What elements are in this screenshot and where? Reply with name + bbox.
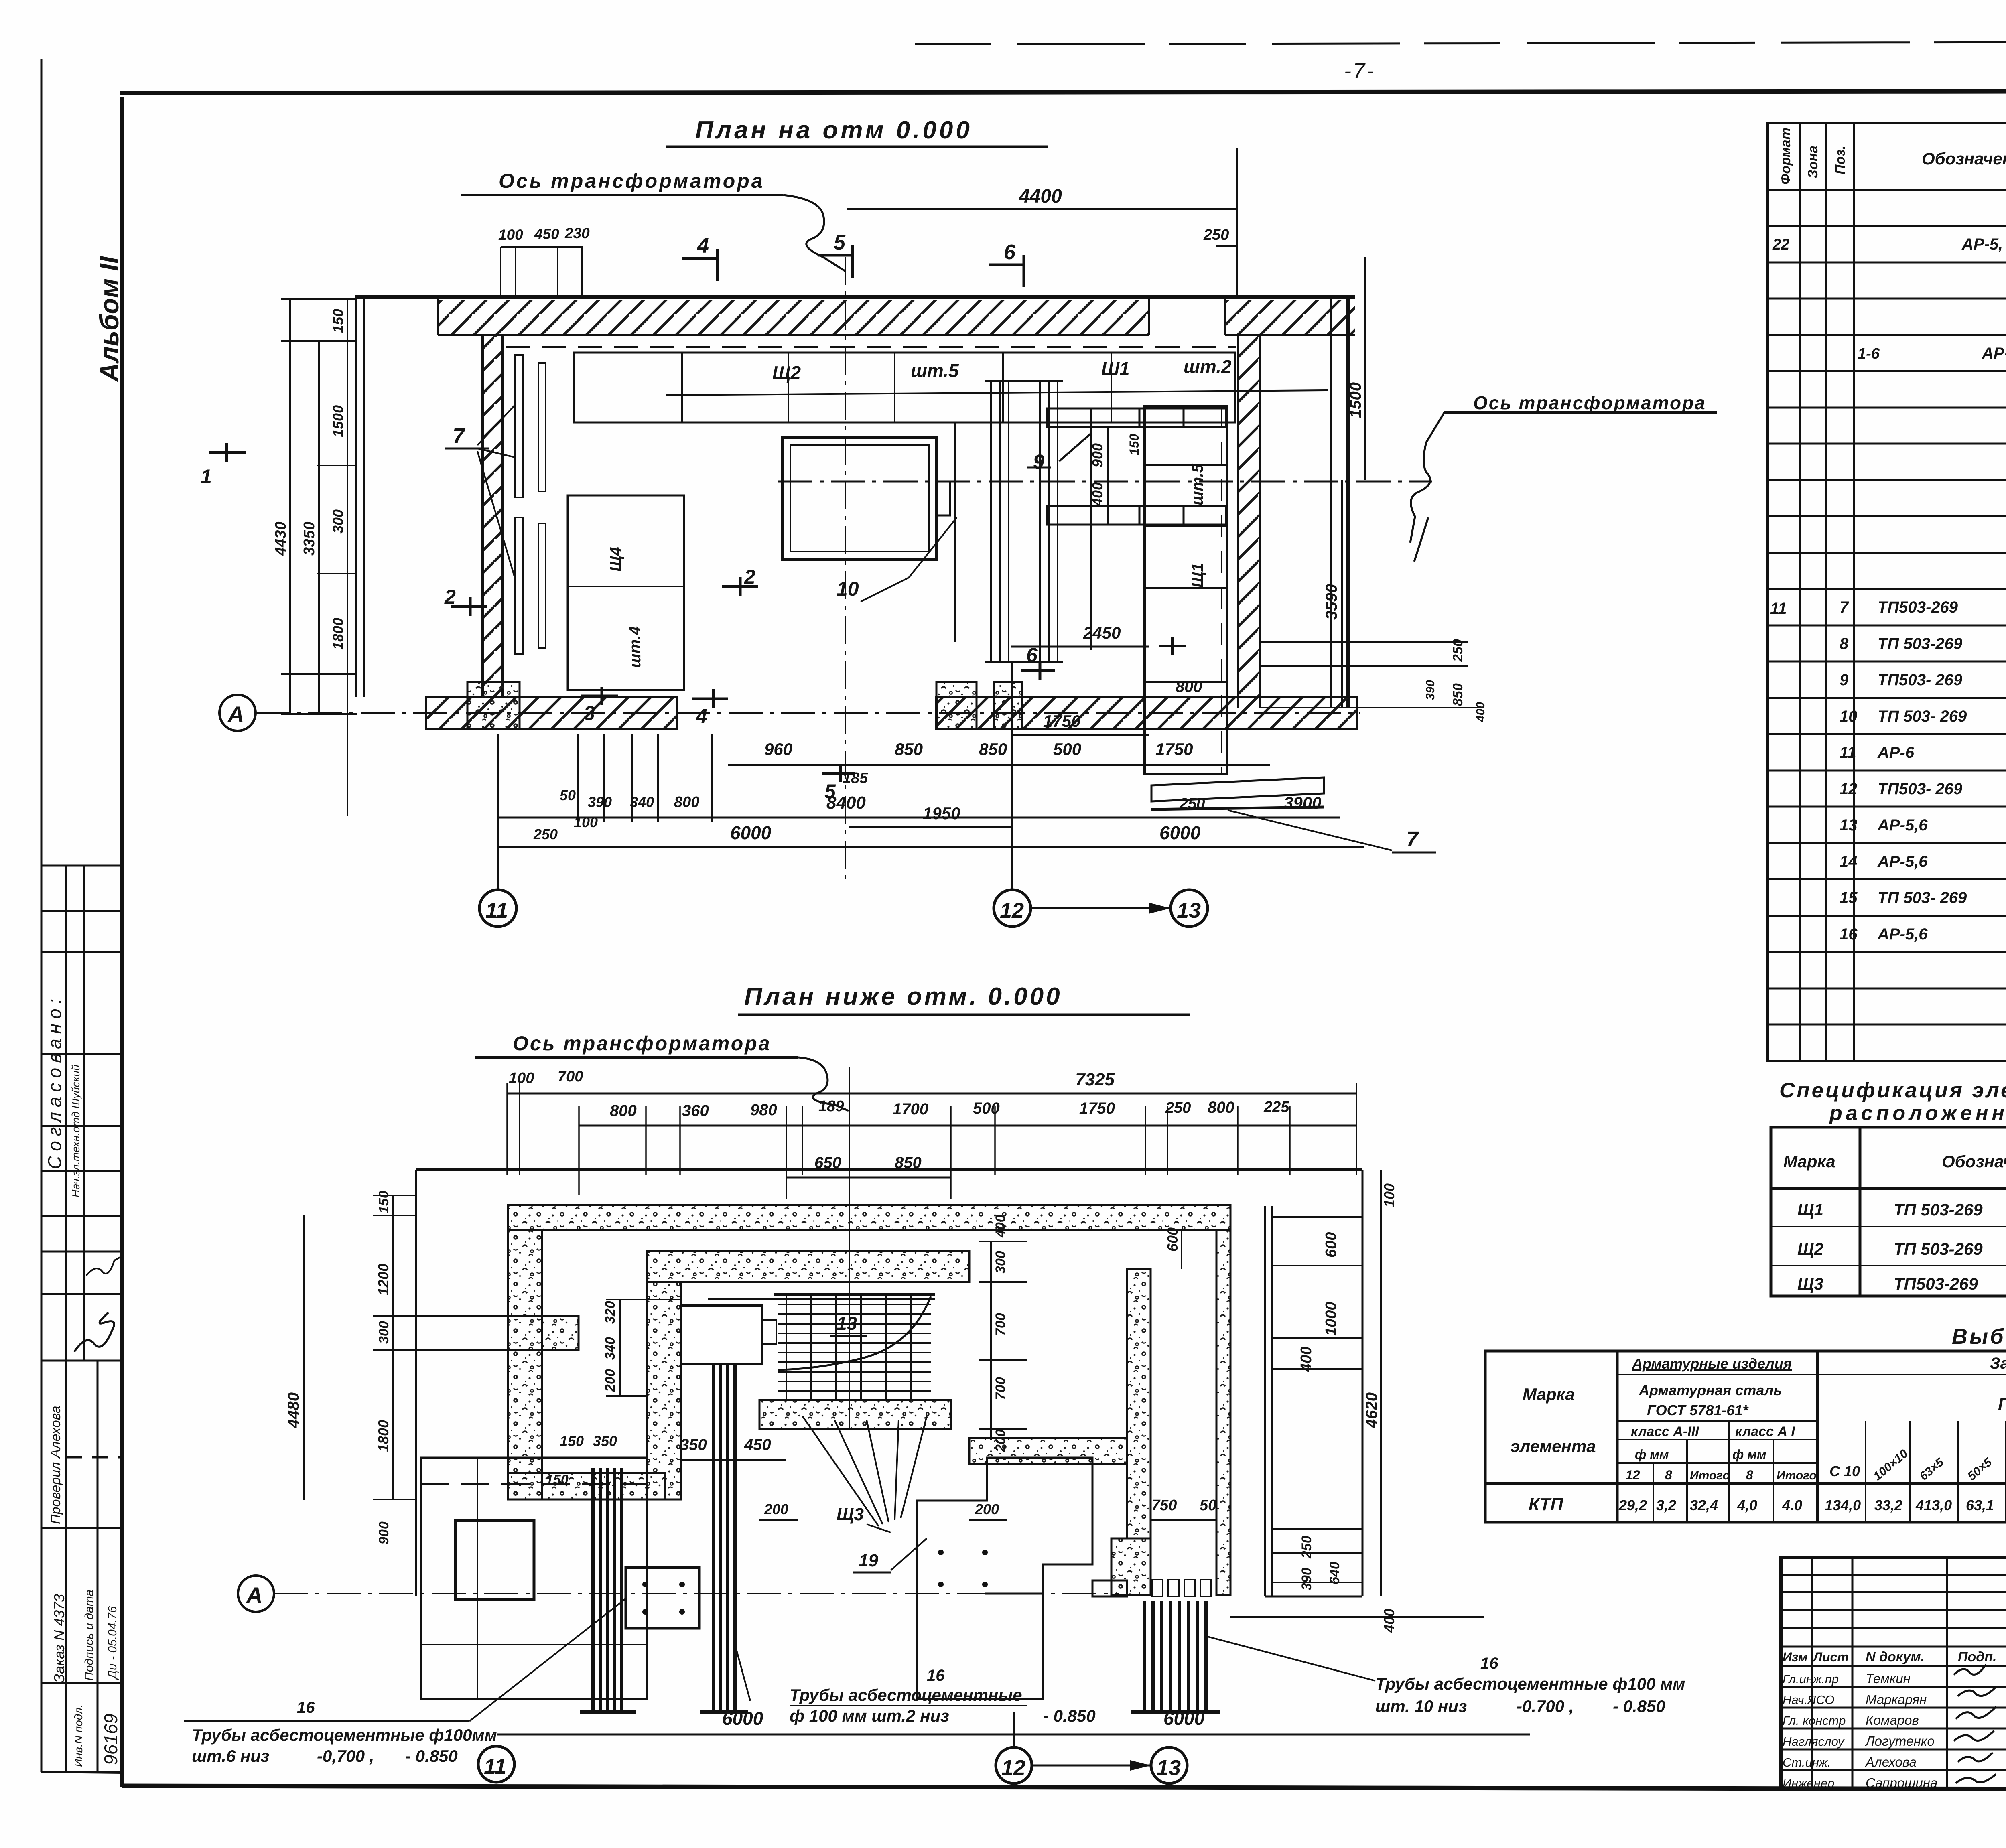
svg-text:4: 4 [696, 705, 707, 727]
svg-text:450: 450 [744, 1436, 771, 1454]
svg-text:Инженер: Инженер [1783, 1776, 1834, 1790]
section mark 4 top [682, 249, 717, 281]
svg-text:63,1: 63,1 [1966, 1497, 1994, 1513]
svg-text:Заказ N 4373: Заказ N 4373 [51, 1594, 67, 1683]
svg-text:1000: 1000 [1323, 1302, 1340, 1336]
svg-text:Обозначение: Обозначение [1942, 1152, 2006, 1171]
svg-text:640: 640 [1327, 1562, 1342, 1584]
svg-text:1700: 1700 [893, 1100, 928, 1118]
svg-text:4620: 4620 [1363, 1392, 1381, 1428]
svg-text:ф мм: ф мм [1732, 1447, 1766, 1462]
svg-text:2: 2 [444, 586, 456, 608]
svg-text:700: 700 [993, 1377, 1008, 1400]
svg-text:расположенным на листах А: расположенным на листах АР-5,АР-6. [1829, 1101, 2006, 1125]
svg-text:Изм: Изм [1783, 1650, 1808, 1664]
svg-text:10: 10 [1840, 708, 1858, 725]
svg-text:10: 10 [837, 578, 859, 600]
svg-text:700: 700 [993, 1313, 1008, 1336]
lower plan title underline [738, 1014, 1190, 1016]
svg-text:Ди - 05.04.76: Ди - 05.04.76 [106, 1606, 119, 1680]
svg-text:100: 100 [498, 227, 523, 243]
svg-text:Логутенко: Логутенко [1865, 1734, 1935, 1749]
svg-text:29,2: 29,2 [1618, 1497, 1647, 1513]
svg-text:850: 850 [979, 740, 1007, 759]
svg-text:800: 800 [674, 794, 699, 811]
stipple block at left wall base [467, 682, 520, 729]
right wall column [1216, 1230, 1230, 1595]
transformer axis horizontal dash-dot [778, 481, 1432, 483]
svg-text:ГОСТ 5781-61*: ГОСТ 5781-61* [1647, 1402, 1749, 1418]
svg-text:100: 100 [509, 1070, 534, 1087]
white room rect in pit [681, 1306, 762, 1364]
svg-text:250: 250 [1299, 1536, 1314, 1559]
section marks 1 and 2 left [209, 443, 246, 462]
svg-text:16: 16 [297, 1699, 315, 1716]
left vertical dim chain upper plan [347, 299, 348, 816]
svg-text:5: 5 [824, 780, 836, 803]
svg-text:6000: 6000 [1163, 1708, 1205, 1729]
svg-text:225: 225 [1263, 1099, 1289, 1116]
svg-text:3590: 3590 [1323, 584, 1340, 620]
svg-text:Марка: Марка [1523, 1385, 1575, 1404]
svg-text:33,2: 33,2 [1874, 1497, 1902, 1513]
chain 1950 [849, 826, 1011, 828]
svg-text:12: 12 [1001, 1756, 1025, 1780]
panels dashed front line [506, 346, 1236, 348]
stamp small signature [86, 1256, 122, 1276]
svg-text:Согласовано:: Согласовано: [44, 994, 65, 1169]
svg-text:Нач.эл.техн.отд Шуйский: Нач.эл.техн.отд Шуйский [70, 1065, 82, 1197]
svg-text:6000: 6000 [1159, 822, 1201, 843]
svg-text:800: 800 [610, 1102, 637, 1120]
stair hatch area [708, 1295, 935, 1400]
svg-text:450: 450 [534, 226, 559, 242]
axis A circle lower plan [238, 1576, 274, 1612]
svg-text:- 0.850: - 0.850 [1613, 1697, 1665, 1716]
svg-text:Трубы асбестоцементные: Трубы асбестоцементные [790, 1686, 1022, 1704]
svg-text:800: 800 [1176, 678, 1202, 696]
svg-text:АР-5,6: АР-5,6 [1877, 816, 1928, 834]
svg-text:Подп.: Подп. [1958, 1649, 1996, 1665]
axis 5 vertical dash-dot [845, 257, 846, 880]
svg-text:16: 16 [1480, 1655, 1498, 1672]
svg-text:План ниже отм. 0.000: План ниже отм. 0.000 [744, 983, 1062, 1010]
frame left border [120, 97, 124, 1787]
lower-right horizontal line to pipes [1230, 1616, 1484, 1618]
right pipe bundle [1131, 1601, 1220, 1712]
foundation strip right [936, 697, 1357, 729]
svg-text:4,0: 4,0 [1737, 1497, 1757, 1513]
center-right wall foot [1111, 1538, 1151, 1595]
svg-text:350: 350 [680, 1436, 707, 1454]
svg-text:250: 250 [533, 826, 558, 842]
svg-text:7: 7 [453, 424, 466, 448]
svg-text:Нагляслоу: Нагляслоу [1783, 1734, 1845, 1749]
frame top border [120, 91, 2006, 93]
svg-text:900: 900 [376, 1521, 392, 1544]
svg-text:6000: 6000 [722, 1708, 763, 1729]
plate with bolts left [626, 1568, 699, 1628]
svg-text:850: 850 [1450, 683, 1466, 706]
svg-text:11: 11 [1770, 600, 1787, 617]
leader line under labels [666, 390, 1328, 395]
svg-text:16: 16 [1840, 925, 1858, 943]
dims right of pit: 400 300 700 700 200 [990, 1241, 992, 1440]
svg-text:Ось трансформатора: Ось трансформатора [513, 1032, 772, 1055]
svg-text:ТП503-269: ТП503-269 [1894, 1274, 1978, 1293]
door gap jambs [1148, 297, 1150, 335]
svg-text:4430: 4430 [272, 521, 289, 556]
svg-text:400: 400 [1298, 1347, 1315, 1372]
svg-text:Профильная сталь: Профильная сталь [1998, 1394, 2006, 1414]
svg-text:16: 16 [927, 1667, 945, 1684]
svg-text:Арматурные изделия: Арматурные изделия [1632, 1355, 1792, 1372]
axis A circle upper plan [219, 695, 256, 731]
svg-text:ТП503- 269: ТП503- 269 [1878, 780, 1963, 798]
dim 6000 6000 line [498, 846, 1364, 848]
svg-text:Ш1: Ш1 [1101, 358, 1130, 379]
dim line 7325 [507, 1093, 1356, 1095]
svg-text:300: 300 [993, 1251, 1008, 1274]
left wall hatched [483, 335, 502, 697]
svg-text:2: 2 [744, 566, 755, 588]
svg-text:класс А I: класс А I [1735, 1424, 1795, 1439]
svg-text:шт.6 низ: шт.6 низ [192, 1747, 269, 1765]
svg-text:Спецификация элементов к: Спецификация элементов к маркировочным с… [1779, 1079, 2006, 1102]
left vertical dim chain lower plan [392, 1195, 394, 1500]
svg-text:Трубы асбестоцементные ф100: Трубы асбестоцементные ф100 мм [1375, 1674, 1685, 1693]
dim 8400 line [498, 817, 1340, 819]
shelf bars right-center [1047, 408, 1226, 525]
svg-text:11: 11 [485, 899, 508, 923]
svg-text:Темкин: Темкин [1866, 1671, 1911, 1686]
svg-text:3: 3 [584, 702, 595, 724]
left stamp column table [41, 866, 122, 1772]
svg-text:8: 8 [1746, 1468, 1753, 1482]
svg-text:1500: 1500 [330, 405, 346, 437]
squiggle leader right [1410, 412, 1444, 562]
svg-text:шт.5: шт.5 [1189, 463, 1206, 505]
svg-text:960: 960 [764, 740, 792, 759]
connector stub to right wall [1092, 1580, 1127, 1596]
left pile inner block [455, 1521, 534, 1599]
underline of axis label [461, 194, 783, 196]
svg-text:Комаров: Комаров [1866, 1713, 1919, 1728]
svg-text:Щ2: Щ2 [1797, 1239, 1823, 1258]
svg-text:11: 11 [484, 1755, 506, 1779]
svg-text:1750: 1750 [1079, 1099, 1115, 1117]
svg-text:134,0: 134,0 [1825, 1497, 1861, 1513]
left stipple wall [508, 1230, 542, 1499]
svg-text:390: 390 [1299, 1568, 1314, 1590]
svg-text:ТП 503-269: ТП 503-269 [1878, 635, 1963, 653]
room cells lower-left [568, 495, 684, 690]
right side dims upper plan [1364, 257, 1366, 480]
svg-text:Поз.: Поз. [1833, 146, 1848, 174]
svg-text:Подпись и дата: Подпись и дата [83, 1590, 96, 1681]
svg-text:ТП 503- 269: ТП 503- 269 [1878, 708, 1967, 725]
svg-text:400: 400 [1381, 1609, 1397, 1633]
svg-text:750: 750 [1151, 1497, 1177, 1514]
svg-text:А: А [246, 1582, 262, 1608]
svg-text:8: 8 [1665, 1468, 1672, 1482]
svg-text:200: 200 [993, 1429, 1008, 1452]
svg-text:4: 4 [697, 234, 709, 258]
svg-text:150: 150 [330, 309, 346, 333]
svg-text:ТП 503-269: ТП 503-269 [1894, 1200, 1983, 1219]
svg-text:200: 200 [603, 1369, 618, 1392]
svg-text:- 0.850: - 0.850 [1043, 1706, 1096, 1725]
svg-text:-0,700 ,: -0,700 , [317, 1747, 374, 1765]
pipe bundle 1 [580, 1468, 636, 1712]
svg-text:350: 350 [593, 1433, 617, 1449]
svg-text:Марка: Марка [1783, 1152, 1835, 1171]
svg-text:1: 1 [201, 465, 212, 488]
squiggle leader to axis 5 [783, 195, 845, 271]
dim stack 900 400 [1107, 427, 1109, 525]
section mark 5 top [818, 245, 853, 278]
element 7 thin bars left [515, 355, 523, 497]
svg-text:7: 7 [1840, 598, 1849, 616]
top wall outline main line [355, 295, 1355, 299]
svg-text:ф мм: ф мм [1635, 1447, 1669, 1462]
svg-text:340: 340 [603, 1337, 618, 1360]
switchgear panels row [574, 353, 1235, 422]
top stipple wall band [508, 1205, 1230, 1230]
building left corner double line [355, 297, 357, 697]
svg-text:АР-5,6: АР-5,6 [1877, 925, 1928, 943]
svg-text:АР-5, АР-6: АР-5, АР-6 [1961, 235, 2006, 253]
svg-text:Инв.N подл.: Инв.N подл. [72, 1704, 85, 1767]
svg-text:Арматурная сталь: Арматурная сталь [1639, 1382, 1782, 1398]
svg-text:Алехова: Алехова [1865, 1755, 1917, 1769]
svg-text:12: 12 [1000, 899, 1024, 923]
top wall hatched band A [438, 300, 1149, 334]
svg-text:32,4: 32,4 [1690, 1497, 1718, 1513]
svg-text:1800: 1800 [375, 1420, 392, 1452]
svg-text:320: 320 [603, 1301, 618, 1324]
svg-text:13: 13 [1157, 1756, 1181, 1780]
svg-text:19: 19 [859, 1551, 878, 1570]
axis circles upper plan [479, 890, 516, 927]
pipe bundle 2 center [700, 1364, 748, 1712]
svg-text:Маркарян: Маркарян [1866, 1692, 1927, 1707]
svg-text:3350: 3350 [301, 521, 318, 556]
left pile cap outline [421, 1458, 647, 1699]
lower plan outer top line [416, 1168, 1362, 1171]
right panels column [1145, 406, 1227, 774]
svg-text:Выборка стали на элемент, к: Выборка стали на элемент, кГ. [1952, 1325, 2006, 1349]
svg-text:Щ3: Щ3 [837, 1505, 864, 1524]
svg-text:Лист: Лист [1813, 1650, 1849, 1664]
axis A dash-dot lower [274, 1593, 1119, 1594]
left stub wall [542, 1316, 579, 1350]
svg-text:класс А-III: класс А-III [1631, 1424, 1699, 1439]
svg-text:800: 800 [1208, 1099, 1234, 1116]
svg-text:12: 12 [1840, 780, 1858, 798]
svg-text:250: 250 [1179, 795, 1205, 812]
svg-text:АР-6: АР-6 [1877, 744, 1915, 761]
svg-text:413,0: 413,0 [1915, 1497, 1952, 1513]
spec table outer and columns [1768, 123, 2006, 1061]
svg-text:15: 15 [1840, 889, 1858, 907]
svg-text:Зона: Зона [1805, 146, 1821, 179]
svg-text:4480: 4480 [285, 1392, 303, 1428]
top wall hatched band B [1225, 300, 1355, 334]
svg-text:250: 250 [1450, 639, 1466, 662]
svg-text:2450: 2450 [1083, 623, 1121, 642]
svg-text:1500: 1500 [1347, 382, 1364, 418]
svg-text:200: 200 [764, 1501, 788, 1517]
svg-text:13: 13 [1177, 899, 1201, 923]
center-right wall column [1127, 1269, 1151, 1538]
foundation strip left [426, 697, 677, 729]
axis circles lower plan [478, 1746, 514, 1782]
svg-text:1750: 1750 [1043, 712, 1080, 730]
svg-text:Гл.инж.пр: Гл.инж.пр [1783, 1672, 1839, 1686]
svg-text:Трубы асбестоцементные ф100м: Трубы асбестоцементные ф100мм [192, 1726, 497, 1745]
pipes note left [184, 1720, 469, 1722]
svg-text:АР-5,6: АР-5,6 [1877, 853, 1928, 870]
svg-text:Закладные изделия: Закладные изделия [1990, 1355, 2006, 1372]
spec table row lines [1768, 190, 2006, 1061]
svg-text:5: 5 [834, 231, 846, 254]
axis A dash-dot line [256, 712, 1360, 714]
stamp strip bottom edge [41, 1772, 122, 1773]
embedded plate bottom right [1151, 777, 1324, 801]
svg-text:Щ2: Щ2 [772, 362, 801, 383]
svg-text:9: 9 [1840, 671, 1849, 689]
svg-text:Щ1: Щ1 [1797, 1200, 1823, 1219]
svg-text:700: 700 [558, 1068, 583, 1085]
svg-text:1750: 1750 [1155, 740, 1193, 759]
svg-text:150: 150 [1127, 434, 1141, 455]
svg-text:250: 250 [1165, 1099, 1191, 1116]
svg-text:250: 250 [1203, 227, 1229, 243]
svg-text:ТП 503-269: ТП 503-269 [1894, 1239, 1983, 1258]
svg-text:Итого: Итого [1690, 1469, 1730, 1482]
svg-text:9: 9 [1033, 450, 1044, 473]
svg-text:6000: 6000 [730, 822, 772, 843]
svg-text:шт.2: шт.2 [1184, 356, 1232, 377]
svg-text:4400: 4400 [1019, 186, 1062, 207]
transformer box [782, 437, 937, 560]
top registration dashed line [915, 41, 2006, 44]
svg-text:АР-6: АР-6 [1982, 345, 2006, 362]
signature squiggles [1954, 1665, 1996, 1783]
svg-text:1200: 1200 [375, 1264, 392, 1296]
stipple blocks right strip [936, 682, 977, 729]
svg-text:600: 600 [1323, 1232, 1340, 1258]
svg-text:ТП503-269: ТП503-269 [1878, 598, 1958, 616]
svg-text:-7-: -7- [1344, 59, 1375, 83]
svg-text:8: 8 [1840, 635, 1849, 653]
svg-text:Альбом II: Альбом II [94, 256, 124, 383]
svg-text:- 0.850: - 0.850 [405, 1747, 458, 1765]
svg-text:400: 400 [1474, 702, 1487, 722]
svg-text:500: 500 [1053, 740, 1081, 759]
svg-text:13: 13 [1840, 816, 1858, 834]
squiggle leader lower [798, 1057, 849, 1111]
right wall hatched [1238, 335, 1260, 708]
dim 4400 [847, 208, 1237, 210]
svg-text:13: 13 [837, 1313, 857, 1334]
section mark 6 top [989, 255, 1024, 287]
svg-text:200: 200 [975, 1501, 999, 1517]
vertical dim 4620 right [1380, 1170, 1382, 1596]
svg-text:11: 11 [1840, 744, 1856, 761]
svg-text:шт.5: шт.5 [911, 360, 959, 381]
svg-text:390: 390 [1424, 680, 1437, 700]
stamp signature squiggle [74, 1312, 114, 1352]
svg-text:300: 300 [376, 1321, 392, 1344]
svg-text:6: 6 [1004, 241, 1016, 264]
svg-text:Проверил Алехова: Проверил Алехова [48, 1406, 63, 1524]
svg-text:230: 230 [564, 225, 590, 241]
svg-text:ф 100 мм шт.2 низ: ф 100 мм шт.2 низ [790, 1706, 949, 1725]
svg-text:Щ4: Щ4 [607, 547, 625, 572]
svg-text:7: 7 [1406, 827, 1419, 851]
svg-text:Ось трансформатора: Ось трансформатора [499, 170, 765, 192]
chain 1750 right [1011, 734, 1149, 736]
svg-text:шт. 10 низ: шт. 10 низ [1375, 1697, 1467, 1716]
chain 2450 [1011, 646, 1149, 648]
svg-text:7325: 7325 [1075, 1070, 1115, 1089]
svg-text:1950: 1950 [923, 804, 960, 823]
svg-text:300: 300 [330, 509, 346, 534]
pit left wall [647, 1282, 681, 1499]
right room of lower plan [1265, 1170, 1362, 1596]
svg-text:150: 150 [546, 1472, 569, 1487]
svg-text:3,2: 3,2 [1656, 1497, 1676, 1513]
svg-text:22: 22 [1772, 236, 1789, 253]
svg-text:План на отм 0.000: План на отм 0.000 [695, 116, 973, 144]
pit bottom band [759, 1400, 951, 1429]
svg-text:1-6: 1-6 [1858, 345, 1880, 362]
paper edge left line [41, 59, 43, 1772]
frame bottom border [122, 1786, 2006, 1790]
svg-text:элемента: элемента [1511, 1437, 1596, 1456]
svg-text:50: 50 [1200, 1497, 1216, 1514]
svg-text:900: 900 [1089, 443, 1106, 467]
svg-text:6: 6 [1026, 644, 1038, 666]
svg-text:Формат: Формат [1778, 128, 1793, 185]
svg-text:12: 12 [1626, 1468, 1640, 1482]
svg-text:С 10: С 10 [1829, 1463, 1860, 1479]
svg-text:-0.700 ,: -0.700 , [1517, 1697, 1574, 1716]
extension verticals from chains [507, 1083, 1356, 1199]
svg-text:Ст.инж.: Ст.инж. [1783, 1755, 1831, 1769]
svg-text:340: 340 [630, 794, 654, 810]
svg-text:Ось трансформатора: Ось трансформатора [1473, 392, 1706, 413]
svg-text:150: 150 [376, 1191, 392, 1213]
pit top band [647, 1251, 969, 1282]
svg-text:150: 150 [560, 1433, 584, 1449]
lower dim line 6000 6000 [497, 1734, 1530, 1736]
svg-text:400: 400 [993, 1215, 1008, 1238]
lower plan central axis vertical [849, 1067, 850, 1428]
svg-text:390: 390 [588, 794, 612, 810]
svg-text:96169: 96169 [100, 1714, 121, 1765]
svg-text:400: 400 [1089, 482, 1106, 507]
svg-text:850: 850 [895, 740, 923, 759]
svg-text:Обозначение: Обозначение [1922, 149, 2006, 168]
svg-text:Гл. констр: Гл. констр [1783, 1714, 1846, 1728]
svg-text:50: 50 [560, 787, 576, 803]
channel columns [955, 381, 1091, 662]
svg-text:N докум.: N докум. [1866, 1649, 1925, 1665]
svg-text:А: А [227, 702, 244, 727]
